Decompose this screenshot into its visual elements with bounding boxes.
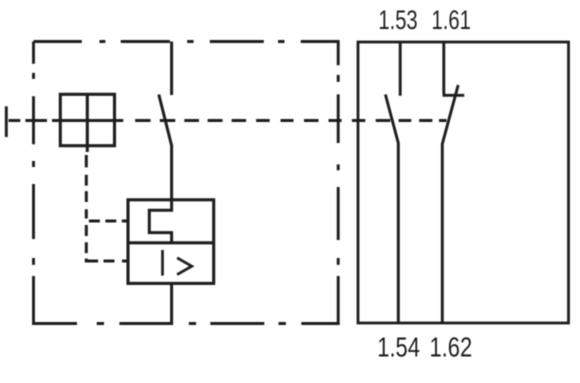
svg-text:1.62: 1.62 (429, 334, 472, 364)
svg-text:1.53: 1.53 (378, 6, 417, 35)
svg-text:1.61: 1.61 (432, 6, 471, 35)
svg-text:1.54: 1.54 (377, 334, 420, 364)
